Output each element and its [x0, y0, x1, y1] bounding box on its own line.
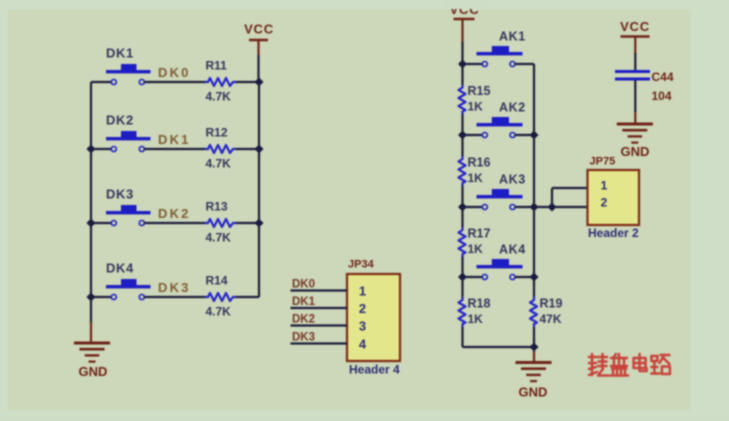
svg-text:GND: GND [519, 385, 548, 400]
svg-text:4.7K: 4.7K [206, 90, 232, 104]
svg-text:1K: 1K [468, 242, 484, 256]
svg-text:AK1: AK1 [499, 30, 526, 44]
svg-text:DK0: DK0 [158, 65, 191, 80]
svg-text:1K: 1K [468, 171, 484, 185]
svg-text:47K: 47K [540, 312, 562, 326]
svg-text:DK4: DK4 [106, 261, 134, 276]
svg-text:DK2: DK2 [158, 206, 191, 221]
svg-text:3: 3 [359, 319, 366, 334]
svg-text:DK1: DK1 [106, 46, 134, 61]
svg-text:DK3: DK3 [106, 187, 134, 202]
svg-text:JP34: JP34 [348, 259, 375, 271]
svg-text:R19: R19 [540, 297, 563, 311]
svg-text:AK4: AK4 [499, 243, 526, 257]
svg-text:R16: R16 [468, 156, 491, 170]
svg-text:DK1: DK1 [292, 296, 316, 308]
svg-text:DK3: DK3 [292, 332, 315, 344]
svg-text:R13: R13 [206, 200, 228, 214]
svg-text:2: 2 [359, 301, 366, 316]
svg-text:R15: R15 [468, 84, 491, 98]
svg-text:1K: 1K [468, 100, 484, 114]
svg-text:DK2: DK2 [106, 113, 134, 128]
svg-text:Header 2: Header 2 [588, 226, 639, 240]
svg-text:GND: GND [79, 364, 108, 379]
svg-text:1: 1 [359, 284, 366, 299]
svg-text:R12: R12 [206, 126, 228, 140]
svg-text:GND: GND [621, 144, 650, 159]
svg-text:DK2: DK2 [292, 314, 315, 326]
svg-text:R18: R18 [468, 297, 491, 311]
svg-text:1K: 1K [468, 312, 484, 326]
svg-text:VCC: VCC [244, 22, 274, 37]
svg-text:DK0: DK0 [292, 279, 315, 291]
svg-text:4: 4 [359, 337, 367, 352]
svg-text:AK2: AK2 [499, 101, 526, 115]
svg-text:104: 104 [652, 89, 672, 103]
svg-text:R14: R14 [206, 274, 228, 288]
svg-text:AK3: AK3 [499, 173, 526, 187]
svg-text:4.7K: 4.7K [206, 157, 232, 171]
svg-text:VCC: VCC [620, 19, 650, 34]
svg-text:Header 4: Header 4 [349, 363, 400, 377]
svg-text:DK3: DK3 [158, 280, 191, 295]
svg-text:4.7K: 4.7K [206, 231, 232, 245]
svg-text:C44: C44 [652, 70, 674, 84]
svg-text:DK1: DK1 [158, 132, 191, 147]
svg-text:R11: R11 [206, 59, 228, 73]
svg-text:2: 2 [601, 196, 608, 210]
svg-text:JP75: JP75 [590, 156, 616, 168]
svg-text:1: 1 [601, 179, 608, 193]
svg-text:4.7K: 4.7K [206, 305, 232, 319]
svg-text:R17: R17 [468, 227, 491, 241]
